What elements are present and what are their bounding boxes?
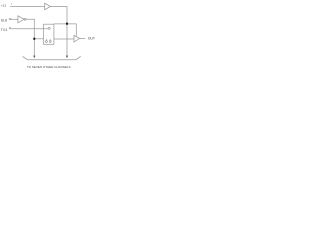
svg-text:SL8: SL8: [1, 19, 7, 23]
svg-text:TC4: TC4: [1, 28, 8, 32]
svg-text:+12: +12: [1, 3, 7, 7]
svg-text:TO SEVEN OTHER CHANNELS: TO SEVEN OTHER CHANNELS: [27, 65, 71, 69]
svg-text:OUT: OUT: [88, 37, 95, 41]
svg-text:1: 1: [11, 3, 13, 5]
